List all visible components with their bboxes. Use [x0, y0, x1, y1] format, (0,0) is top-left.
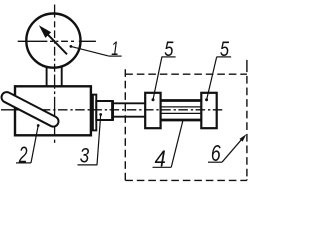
leader line 1 — [70, 45, 122, 56]
leader line 5 (right) — [205, 57, 231, 101]
svg-text:5: 5 — [220, 37, 229, 61]
svg-text:6: 6 — [211, 140, 221, 166]
fitting plate (flange on body) — [93, 95, 96, 131]
neck between gauge and body — [47, 66, 62, 86]
leader line 4 — [153, 120, 184, 167]
horizontal centerline of pipe assembly — [1, 109, 222, 111]
pipe 4 outer walls — [160, 101, 202, 121]
horizontal centerline of gauge — [18, 40, 96, 42]
svg-text:1: 1 — [111, 38, 119, 60]
handle lever of valve — [2, 92, 59, 127]
leader line 2 — [16, 124, 40, 163]
gauge circle U1 — [26, 13, 80, 67]
vertical centerline of gauge — [54, 5, 56, 143]
svg-text:5: 5 — [164, 37, 173, 61]
leader line 5 (left) — [152, 57, 176, 101]
leader line 3 — [78, 113, 103, 165]
pipe 4 bore lines — [160, 107, 202, 114]
impulse tube from fitting to first bushing — [113, 103, 146, 116]
dashed enclosure box 6 — [125, 60, 247, 180]
fitting block 3 — [96, 101, 112, 120]
valve body 2 — [15, 86, 91, 135]
svg-text:4: 4 — [155, 146, 166, 172]
arrow to enclosure 6 — [208, 134, 246, 162]
bushing 5 (left) — [145, 93, 160, 128]
svg-text:3: 3 — [80, 144, 89, 168]
bushing 5 (right) — [201, 93, 216, 128]
svg-text:2: 2 — [18, 142, 28, 168]
gauge needle — [41, 27, 67, 54]
